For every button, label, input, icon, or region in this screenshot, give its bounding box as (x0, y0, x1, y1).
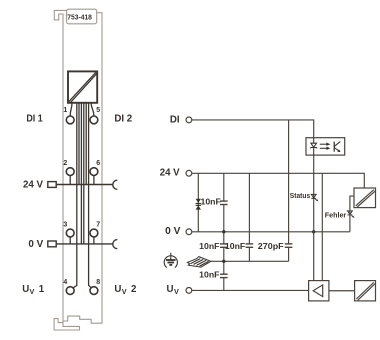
svg-text:10nF: 10nF (225, 242, 245, 251)
svg-text:0 V: 0 V (28, 239, 43, 250)
contact 1 (66, 116, 74, 124)
svg-text:5: 5 (96, 107, 100, 114)
opto light arrows (320, 143, 331, 151)
wire DI horizontal and drop to optocoupler (192, 120, 314, 138)
terminal 24V (186, 170, 192, 176)
svg-text:10nF: 10nF (199, 242, 219, 251)
svg-text:4: 4 (63, 279, 67, 286)
electronics block U1 (square with double diagonal) (68, 71, 97, 102)
svg-text:24 V: 24 V (160, 168, 180, 179)
contact 3 (66, 229, 74, 237)
svg-text:24 V: 24 V (23, 180, 44, 191)
wire to contact 5 (91, 103, 94, 116)
24V rail with blade contact and jumper socket (48, 180, 118, 189)
svg-text:V: V (122, 287, 127, 296)
contact 5 (90, 116, 98, 124)
suppressor diode (TVS) on 24V-0V (197, 173, 199, 232)
terminal DI (186, 117, 192, 123)
wire 0V horizontal (192, 231, 350, 233)
node shield/cap junction (222, 260, 225, 263)
contact 2 (66, 168, 74, 176)
wire opto to status/0V/driver (313, 155, 315, 281)
terminal UV (186, 288, 192, 294)
svg-text:10nF: 10nF (201, 198, 221, 207)
svg-text:7: 7 (96, 221, 100, 228)
0V rail with blade contact and jumper socket (48, 240, 118, 249)
svg-text:U: U (167, 284, 174, 295)
svg-text:U: U (22, 284, 29, 295)
svg-text:0 V: 0 V (165, 226, 181, 237)
shield symbol (screen chisel) (187, 257, 211, 268)
driver block (triangle) (309, 281, 329, 301)
svg-text:6: 6 (96, 160, 100, 167)
wire bundle w1 (to contact 4) (73, 103, 77, 288)
functional earth symbol (164, 253, 177, 268)
wire to contact 1 (70, 103, 72, 116)
label box 753-418 (67, 9, 97, 24)
svg-text:270pF: 270pF (258, 242, 284, 251)
power jumper contact bottom (UV) (355, 281, 376, 301)
svg-text:V: V (30, 287, 35, 296)
wire driver to power jumper (329, 290, 355, 292)
wire bundle w5 (ends on 24V rail) (85, 103, 87, 185)
module outline (753 housing) (54, 10, 102, 330)
svg-text:DI: DI (170, 114, 180, 125)
wire bundle w2 (ends on 24V rail) (78, 103, 80, 185)
svg-text:2: 2 (131, 284, 136, 295)
svg-text:Status: Status (290, 191, 310, 200)
capacitor 10nF (24V-shield) (246, 173, 254, 261)
opto LED (310, 138, 317, 155)
contact 7 (90, 229, 98, 237)
power jumper contact top (24V) (354, 188, 376, 208)
svg-text:10nF: 10nF (199, 271, 219, 280)
wire bundle w4 (ends on 0V rail) (83, 103, 85, 244)
svg-text:753-418: 753-418 (67, 12, 92, 21)
opto phototransistor (334, 142, 340, 152)
wire 24V horizontal to power jumper contact (192, 173, 364, 188)
wire bundle w3 (ends on 0V rail) (80, 103, 82, 244)
svg-text:8: 8 (96, 279, 100, 286)
node 0V/cap junction (222, 230, 225, 233)
capacitor 10nF (0V-shield) (220, 232, 228, 261)
node 0V/status junction (312, 230, 315, 233)
svg-text:Fehler: Fehler (325, 210, 347, 219)
svg-text:DI 2: DI 2 (114, 114, 132, 125)
contact 4 (66, 287, 74, 295)
wire UV horizontal (192, 289, 309, 291)
svg-text:3: 3 (63, 221, 67, 228)
capacitor 10nF (24V-0V) (220, 173, 228, 232)
svg-text:2: 2 (63, 160, 67, 167)
capacitor 270pF (DI-shield) (285, 120, 293, 261)
wire fehler branch (350, 196, 354, 232)
wire 24V branch to driver (321, 173, 323, 280)
svg-text:V: V (174, 287, 179, 296)
terminal 0V (186, 229, 192, 235)
svg-text:U: U (114, 284, 121, 295)
svg-text:DI 1: DI 1 (26, 114, 43, 125)
svg-text:1: 1 (39, 284, 45, 295)
optocoupler U2 (306, 138, 345, 155)
contact 6 (90, 168, 98, 176)
contact 8 (90, 287, 98, 295)
wire bundle w6 (to contact 8) (89, 103, 92, 288)
shield bus wire (211, 260, 289, 262)
capacitor 10nF (shield-UV) (220, 261, 228, 290)
svg-text:1: 1 (63, 107, 67, 114)
